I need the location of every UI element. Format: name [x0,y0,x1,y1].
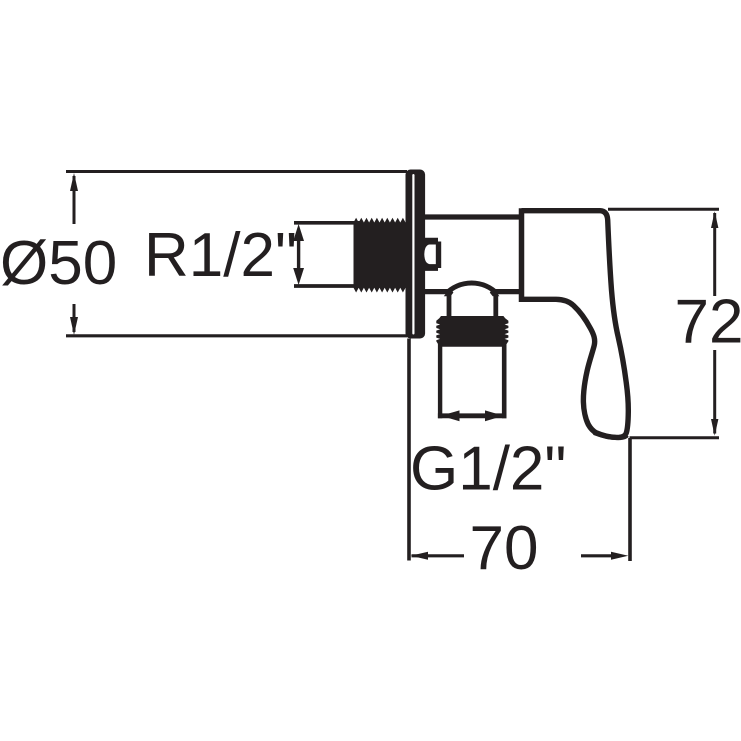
inlet pipe top line [294,221,360,225]
dimension 70 right extension line [628,438,632,561]
dimension 70 left arrowhead [411,552,428,560]
svg-text:72: 72 [675,287,741,356]
dimension 72 top extension line [608,208,719,211]
dimension 72 top arrowhead [711,211,718,228]
R1/2 bottom arrowhead [293,268,304,285]
dimension 72 bottom extension line [630,436,720,439]
dimension Ø50 top arrowhead [70,173,78,191]
handle outline [522,211,629,438]
R1/2 thread dimension line [297,238,300,271]
bonnet notch on flange [425,238,442,271]
dimension 72 dimension line [713,213,716,296]
bonnet notch white inset [424,245,436,265]
svg-text:Ø50: Ø50 [0,229,117,298]
inlet pipe bottom line [294,284,360,288]
dimension Ø50 top extension line [66,170,407,173]
wall flange highlight slit [412,174,414,335]
dimension Ø50 bottom arrowhead [70,317,78,335]
outlet dome left foot [444,288,454,296]
svg-text:G1/2": G1/2" [410,435,566,504]
outlet tube bottom line [438,413,507,418]
outlet dome right foot [490,288,500,296]
wall flange plate [406,170,426,339]
valve body top line [424,214,523,219]
valve body bottom line right segment [496,289,524,294]
outlet tube right wall [502,343,507,418]
svg-text:70: 70 [470,514,539,583]
dimension 70 right arrowhead [611,552,628,560]
valve body bottom line left segment [424,289,448,294]
outlet bore right arrowhead [485,410,504,421]
outlet dome arc [446,283,497,294]
R1/2 top arrowhead [293,224,304,241]
outlet tube left wall [438,343,442,418]
outlet neck left line [447,294,452,318]
dimension 70 left extension line [407,339,411,561]
dimension Ø50 dimension line [73,176,76,224]
dimension 70 dimension line [412,554,465,557]
outlet neck right line [493,294,498,318]
inlet thread R1/2 (black threaded section) [354,218,406,293]
handle blade bottom edge [594,433,627,438]
svg-text:R1/2": R1/2" [144,221,297,290]
valve body right edge / handle left edge [519,208,525,302]
outlet bore left arrowhead [441,410,460,421]
dimension Ø50 bottom extension line [66,334,407,337]
outlet thread collar G1/2 [436,316,508,347]
dimension 72 bottom arrowhead [711,419,718,436]
